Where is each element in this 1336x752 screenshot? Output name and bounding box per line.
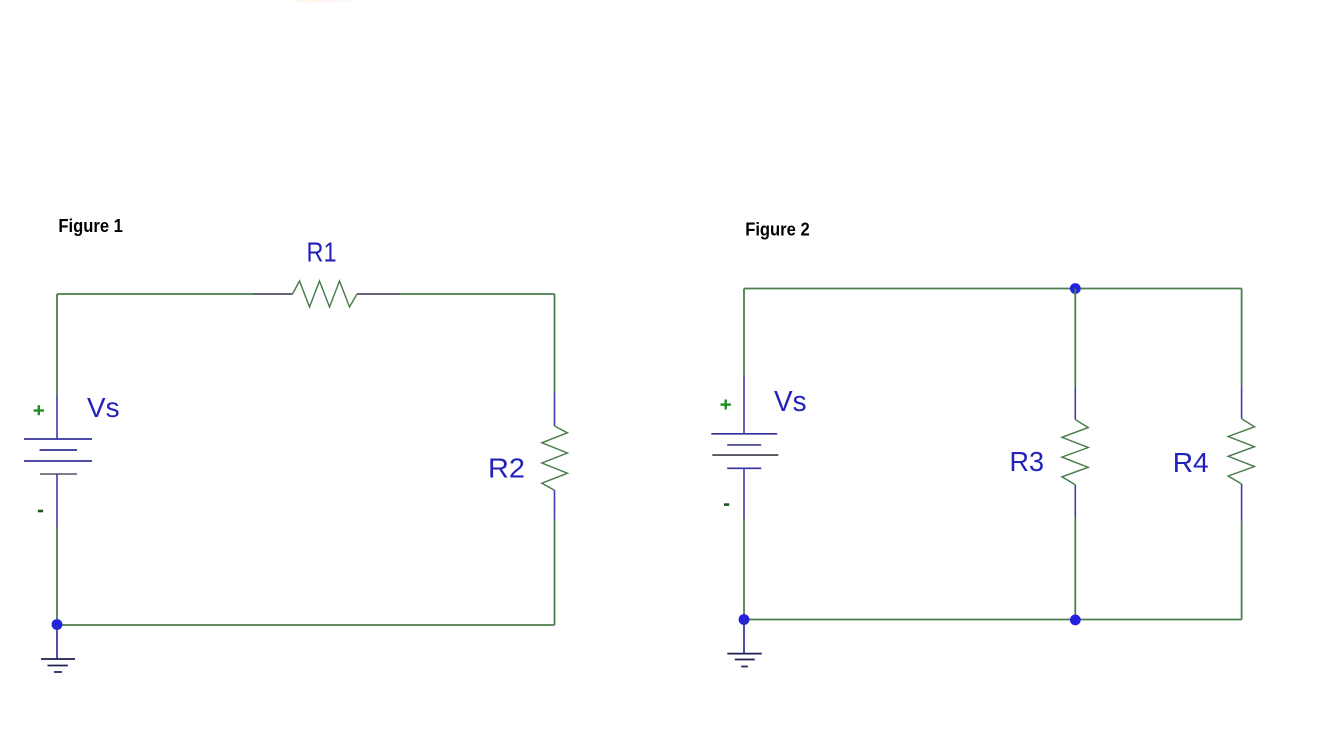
resistor R2 zigzag bbox=[542, 426, 568, 490]
plus sign fig1 bbox=[34, 405, 44, 415]
wire: fig1 top left segment bbox=[57, 293, 253, 295]
resistor R2 bottom lead (blue) bbox=[554, 490, 556, 519]
ground fig1 stub bbox=[56, 625, 58, 659]
ground fig2 bar 2 bbox=[735, 659, 755, 661]
wire: fig1 bottom bbox=[57, 624, 555, 626]
resistor R4 top lead (blue) bbox=[1241, 386, 1243, 419]
resistor R1 right lead bbox=[357, 293, 400, 295]
wire: fig2 top bbox=[744, 288, 1242, 290]
svg-text:Vs: Vs bbox=[774, 386, 807, 418]
battery Vs fig1 plate 4 (short, gray) bbox=[40, 473, 77, 475]
battery Vs fig1 bottom pin (blue) bbox=[56, 474, 58, 527]
wire: fig1 right upper (green) bbox=[554, 294, 556, 393]
wire: fig2 R3 branch lower (green) bbox=[1074, 518, 1076, 620]
ground fig2 bar 1 bbox=[727, 653, 762, 655]
ground fig2 bar 3 bbox=[741, 666, 748, 668]
wire: fig2 right lower (green) bbox=[1241, 522, 1243, 620]
resistor R3 bottom lead (blue) bbox=[1074, 485, 1076, 518]
wire: fig1 right lower (green) bbox=[554, 520, 556, 626]
node: fig2 top junction dot bbox=[1070, 283, 1081, 294]
ground fig2 stub bbox=[743, 620, 745, 654]
battery Vs fig1 plate 3 (long) bbox=[24, 460, 92, 462]
minus sign fig1 bbox=[38, 510, 43, 513]
svg-text:Figure 1: Figure 1 bbox=[58, 215, 123, 236]
resistor R3 top lead (blue) bbox=[1074, 387, 1076, 420]
faint cropped strip at top bbox=[296, 0, 352, 3]
battery Vs fig1 plate 2 (short) bbox=[40, 449, 78, 451]
svg-text:Vs: Vs bbox=[87, 392, 120, 423]
svg-text:R1: R1 bbox=[307, 237, 337, 268]
minus sign fig2 bbox=[724, 503, 729, 506]
ground fig1 bar 3 bbox=[54, 671, 62, 673]
node: fig2 bottom-left junction dot bbox=[739, 614, 750, 625]
svg-text:R4: R4 bbox=[1173, 447, 1209, 478]
wire: fig2 bottom bbox=[744, 619, 1242, 621]
node: fig1 bottom-left junction dot bbox=[52, 619, 63, 630]
node: fig2 bottom-middle junction dot bbox=[1070, 615, 1081, 626]
wire: fig2 R3 branch upper (green) bbox=[1074, 289, 1076, 387]
wire: fig1 top right segment bbox=[400, 293, 555, 295]
plus sign fig2 bbox=[721, 400, 731, 410]
wire: fig2 left upper (green) bbox=[743, 289, 745, 376]
svg-text:R2: R2 bbox=[488, 452, 525, 483]
wire: fig2 left lower (green) bbox=[743, 519, 745, 620]
battery Vs fig2 plate 4 (short) bbox=[727, 467, 761, 469]
battery Vs fig1 plate 1 (long) bbox=[24, 438, 92, 440]
svg-text:Figure 2: Figure 2 bbox=[745, 218, 810, 239]
resistor R1 left lead bbox=[253, 293, 293, 295]
ground fig1 bar 2 bbox=[48, 665, 68, 667]
battery Vs fig2 top pin (blue) bbox=[743, 375, 745, 434]
svg-text:R3: R3 bbox=[1010, 446, 1045, 477]
wire: fig1 left upper (green) bbox=[56, 294, 58, 394]
wire: fig2 right upper (green) bbox=[1241, 289, 1243, 387]
battery Vs fig2 bottom pin (blue) bbox=[743, 468, 745, 519]
battery Vs fig2 plate 2 (short) bbox=[727, 444, 761, 446]
resistor R1 zigzag bbox=[293, 281, 358, 307]
resistor R4 zigzag bbox=[1228, 419, 1254, 484]
battery Vs fig2 plate 3 (long, gray) bbox=[712, 454, 778, 456]
battery Vs fig2 plate 1 (long) bbox=[711, 433, 777, 435]
wire: fig1 left lower (green) bbox=[56, 527, 58, 625]
resistor R2 top lead (blue) bbox=[554, 393, 556, 426]
battery Vs fig1 top pin (blue) bbox=[56, 394, 58, 439]
ground fig1 bar 1 bbox=[41, 658, 75, 660]
resistor R4 bottom lead (blue) bbox=[1241, 484, 1243, 522]
resistor R3 zigzag bbox=[1062, 420, 1088, 485]
